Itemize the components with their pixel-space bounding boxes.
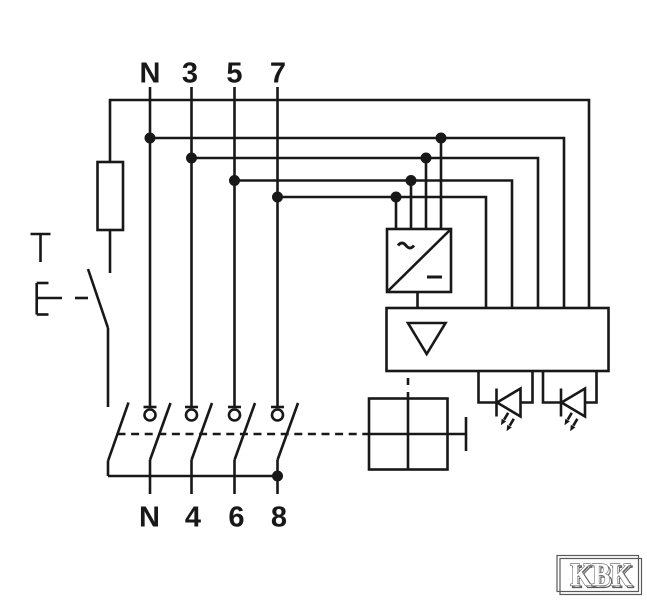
wire dashed trip link (relay to CT) <box>407 378 410 399</box>
wire L7 supply vertical <box>276 87 279 407</box>
switch pole test (leftmost) <box>108 403 129 477</box>
wire converter input stub N <box>440 138 443 229</box>
switch pole N <box>144 403 171 494</box>
node converter tap N <box>436 133 447 144</box>
node on L7 wire <box>272 192 283 203</box>
node test bus to pole 8 <box>272 471 283 482</box>
LED D1 <box>479 371 533 431</box>
wire converter input stub L7 <box>395 197 398 229</box>
svg-text:KBK: KBK <box>570 558 632 594</box>
wire test-resistor feed (top loop) <box>110 100 589 308</box>
node on L3 wire <box>186 153 197 164</box>
wire N supply vertical <box>149 87 152 407</box>
node on L5 wire <box>229 175 240 186</box>
svg-text:3: 3 <box>182 58 198 90</box>
wire converter output <box>416 292 419 308</box>
switch pole 4 <box>185 403 212 494</box>
node converter tap L5 <box>406 175 417 186</box>
wire N sense branch <box>150 138 564 308</box>
node converter tap L3 <box>421 153 432 164</box>
svg-text:6: 6 <box>228 502 244 534</box>
node converter tap L7 <box>391 192 402 203</box>
svg-text:7: 7 <box>270 58 286 90</box>
svg-text:5: 5 <box>226 58 242 90</box>
logo KBK <box>557 556 642 596</box>
trip relay block U2 <box>387 308 609 371</box>
wire test button link dash <box>75 297 88 300</box>
svg-text:N: N <box>139 502 160 534</box>
wire L5 supply vertical <box>233 87 236 407</box>
svg-text:4: 4 <box>185 502 201 534</box>
wire converter input stub L3 <box>425 158 428 229</box>
armature bar <box>465 417 468 451</box>
current transformer core <box>369 399 448 470</box>
wire CT armature lead <box>448 433 467 436</box>
wire test bus <box>108 475 278 478</box>
wire test switch to main pole <box>107 328 110 407</box>
wire converter input stub L5 <box>410 181 413 230</box>
test button symbol <box>37 283 62 315</box>
switch pole 8 <box>271 403 298 494</box>
wire L3 sense branch <box>192 158 539 308</box>
svg-text:N: N <box>140 58 161 90</box>
node on N wire <box>145 133 156 144</box>
resistor R1 (test resistor) <box>98 162 124 230</box>
wire L7 sense branch <box>278 197 487 308</box>
test switch blade <box>88 269 108 328</box>
switch pole 6 <box>228 403 255 494</box>
LED D2 <box>543 371 597 431</box>
wire L3 supply vertical <box>190 87 193 407</box>
wire resistor to test switch <box>109 230 112 273</box>
wire dashed gang bar <box>118 433 370 436</box>
test contact symbol T <box>31 234 51 262</box>
svg-text:8: 8 <box>271 502 287 534</box>
AC/DC converter U1 <box>387 229 451 292</box>
wire L5 sense branch <box>235 181 513 309</box>
